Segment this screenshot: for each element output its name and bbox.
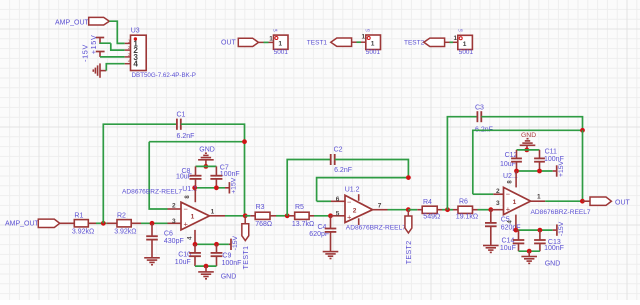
svg-text:C9: C9 xyxy=(222,253,231,260)
ground (left of U3) xyxy=(99,63,101,77)
wire xyxy=(582,200,590,202)
svg-text:−: − xyxy=(506,190,511,199)
wire xyxy=(88,222,96,224)
port TEST1 (down) xyxy=(244,216,246,224)
wire xyxy=(491,209,504,211)
wire xyxy=(545,200,582,202)
pin 1 output lead xyxy=(209,215,225,217)
wire xyxy=(106,64,124,71)
pin 4 lead xyxy=(515,215,517,231)
wire xyxy=(196,165,217,167)
svg-text:TEST1: TEST1 xyxy=(307,39,328,46)
svg-text:OUT: OUT xyxy=(615,200,631,207)
svg-text:AMP_OUT: AMP_OUT xyxy=(55,20,90,27)
wire xyxy=(519,250,540,252)
node xyxy=(193,242,198,247)
capacitor C2 feedback loop xyxy=(287,160,331,216)
wire xyxy=(450,41,454,43)
power -15V (U1 supply) xyxy=(229,243,231,245)
wire xyxy=(270,215,276,217)
wire xyxy=(149,142,167,209)
pin 4 stub xyxy=(358,218,360,225)
svg-text:1: 1 xyxy=(513,199,517,206)
pin 4 lead xyxy=(194,230,196,244)
wire xyxy=(331,215,346,217)
wire -15V rail (U2) xyxy=(516,229,553,231)
ground (C5) xyxy=(483,245,499,247)
svg-text:−: − xyxy=(184,204,189,213)
wire xyxy=(473,209,478,211)
svg-text:-15V: -15V xyxy=(80,44,89,62)
svg-text:1: 1 xyxy=(278,40,282,47)
svg-text:R3: R3 xyxy=(256,204,265,211)
node (C3 loop) xyxy=(445,207,450,212)
svg-text:1: 1 xyxy=(269,36,273,43)
node (C2 loop) xyxy=(285,213,290,218)
svg-text:U4: U4 xyxy=(273,29,277,33)
node xyxy=(527,249,532,254)
node xyxy=(214,185,219,190)
wire pin2 loop xyxy=(473,130,583,194)
svg-text:100nF: 100nF xyxy=(220,171,240,178)
node pin3 xyxy=(150,221,155,226)
wire xyxy=(357,41,362,43)
svg-text:19.1kΩ: 19.1kΩ xyxy=(456,214,478,221)
svg-text:TEST2: TEST2 xyxy=(404,39,425,46)
wire xyxy=(473,193,494,195)
svg-text:1: 1 xyxy=(371,41,375,48)
svg-text:AD8676BRZ-REEL7: AD8676BRZ-REEL7 xyxy=(531,209,591,216)
svg-text:GND: GND xyxy=(521,132,536,139)
wire xyxy=(60,222,75,224)
svg-text:100nF: 100nF xyxy=(544,245,564,252)
node output U1 xyxy=(243,213,248,218)
node xyxy=(537,169,542,174)
svg-text:5001: 5001 xyxy=(274,49,289,56)
svg-text:7: 7 xyxy=(378,203,382,210)
wire pin6 loop xyxy=(317,178,409,202)
svg-text:AD8676BRZ-REEL7: AD8676BRZ-REEL7 xyxy=(122,188,182,195)
wire xyxy=(107,222,117,224)
svg-text:C14: C14 xyxy=(502,238,515,245)
svg-text:2: 2 xyxy=(353,207,357,214)
svg-text:GND: GND xyxy=(545,260,561,267)
power +15V (U1 supply) xyxy=(225,187,229,189)
wire xyxy=(408,209,417,211)
wire pin2 loop xyxy=(149,141,244,143)
node output U1.2 xyxy=(406,207,411,212)
wire xyxy=(388,209,409,211)
svg-text:C6: C6 xyxy=(164,230,173,237)
node xyxy=(514,169,519,174)
svg-text:6: 6 xyxy=(336,196,340,203)
svg-text:5001: 5001 xyxy=(459,49,474,56)
svg-text:DBT50G-7.62-4P-BK-P: DBT50G-7.62-4P-BK-P xyxy=(132,72,196,79)
svg-text:GND: GND xyxy=(221,273,237,280)
svg-text:5001: 5001 xyxy=(366,49,381,56)
svg-text:1: 1 xyxy=(362,34,366,41)
node pin5 xyxy=(328,213,333,218)
svg-text:R6: R6 xyxy=(459,199,468,206)
svg-text:3: 3 xyxy=(496,200,500,207)
port OUT (output) xyxy=(590,197,611,205)
node xyxy=(214,242,219,247)
svg-text:+: + xyxy=(347,212,352,221)
wire xyxy=(245,215,250,217)
ground (C9/C10) xyxy=(205,266,207,272)
svg-text:C2: C2 xyxy=(334,147,343,154)
svg-text:R2: R2 xyxy=(117,213,126,220)
svg-text:1: 1 xyxy=(463,41,467,48)
wire xyxy=(225,215,245,217)
svg-text:-15V: -15V xyxy=(558,221,565,236)
svg-text:100nF: 100nF xyxy=(222,260,242,267)
power +15V xyxy=(96,37,104,39)
node R1-R2 xyxy=(101,221,106,226)
wire xyxy=(100,56,125,58)
svg-text:4: 4 xyxy=(133,60,138,69)
svg-text:6.2nF: 6.2nF xyxy=(334,167,352,174)
ground (C13/C14) xyxy=(528,251,530,256)
power -15V (U2 supply) xyxy=(553,229,557,231)
svg-text:AD8676BRZ-REEL7: AD8676BRZ-REEL7 xyxy=(346,224,406,231)
svg-text:+15V: +15V xyxy=(231,177,238,194)
port TEST2 (down) xyxy=(407,210,409,216)
svg-text:C3: C3 xyxy=(475,104,484,111)
svg-text:U3: U3 xyxy=(131,28,140,35)
svg-text:430pF: 430pF xyxy=(164,238,184,245)
svg-text:1: 1 xyxy=(537,194,541,201)
svg-text:10uF: 10uF xyxy=(500,245,516,252)
wire xyxy=(131,222,141,224)
svg-text:U5: U5 xyxy=(366,29,370,33)
pin 1 output lead xyxy=(531,200,546,202)
node xyxy=(580,128,585,133)
svg-text:5: 5 xyxy=(336,211,340,218)
node gnd xyxy=(524,148,529,153)
wire xyxy=(517,149,540,151)
ground (C4) xyxy=(323,251,339,253)
svg-text:3.92kΩ: 3.92kΩ xyxy=(114,229,136,236)
svg-text:1: 1 xyxy=(191,213,195,220)
wire xyxy=(582,130,584,201)
svg-text:6.2nF: 6.2nF xyxy=(177,133,195,140)
node pin3 U2 xyxy=(488,207,493,212)
wire xyxy=(109,21,124,43)
pin 8 stub xyxy=(358,194,360,201)
node gnd xyxy=(204,164,209,169)
power +15V (U2 supply) xyxy=(553,170,557,172)
svg-text:1: 1 xyxy=(454,35,458,42)
wire xyxy=(317,200,331,202)
wire -15V rail xyxy=(195,243,229,245)
svg-text:U6: U6 xyxy=(458,29,462,33)
svg-text:3: 3 xyxy=(172,218,176,225)
wire xyxy=(309,215,314,217)
svg-text:TEST1: TEST1 xyxy=(243,246,250,270)
wire xyxy=(168,222,182,224)
svg-text:C1: C1 xyxy=(177,111,186,118)
svg-text:13.7kΩ: 13.7kΩ xyxy=(292,221,314,228)
wire +15V rail xyxy=(195,187,225,189)
pin 8 lead xyxy=(515,171,517,187)
node xyxy=(204,264,209,269)
svg-text:2: 2 xyxy=(172,203,176,210)
wire xyxy=(290,215,295,217)
svg-text:+: + xyxy=(506,204,511,213)
node xyxy=(242,139,247,144)
wire +15V rail (U2) xyxy=(517,170,553,172)
capacitor C1 feedback loop xyxy=(103,124,177,223)
svg-text:R5: R5 xyxy=(295,204,304,211)
svg-text:1: 1 xyxy=(211,209,215,216)
node xyxy=(514,228,519,233)
node xyxy=(406,175,411,180)
svg-text:R4: R4 xyxy=(423,199,432,206)
svg-text:768Ω: 768Ω xyxy=(255,221,272,228)
svg-text:−: − xyxy=(347,198,352,207)
svg-text:549Ω: 549Ω xyxy=(423,214,440,221)
svg-text:AMP_OUT: AMP_OUT xyxy=(5,221,40,228)
node xyxy=(192,185,197,190)
node output U2 xyxy=(580,199,585,204)
svg-text:10uF: 10uF xyxy=(175,259,191,266)
power -15V xyxy=(96,51,105,53)
pin 8 lead xyxy=(194,188,196,202)
svg-text:-15V: -15V xyxy=(232,235,239,250)
svg-text:OUT: OUT xyxy=(221,40,237,47)
svg-text:+15V: +15V xyxy=(558,160,565,177)
wire xyxy=(264,41,269,43)
wire xyxy=(437,209,442,211)
wire xyxy=(100,42,111,44)
ground (C6) xyxy=(144,257,160,259)
svg-text:2: 2 xyxy=(496,188,500,195)
svg-text:U1.2: U1.2 xyxy=(345,187,360,194)
wire xyxy=(450,209,453,211)
svg-text:GND: GND xyxy=(199,147,215,154)
svg-text:R1: R1 xyxy=(74,213,83,220)
pin 7 output lead xyxy=(373,209,388,211)
capacitor C3 feedback loop xyxy=(447,117,477,210)
svg-text:TEST2: TEST2 xyxy=(406,241,413,265)
wire xyxy=(195,265,217,267)
node xyxy=(538,228,543,233)
svg-text:3.92kΩ: 3.92kΩ xyxy=(72,229,94,236)
svg-text:+: + xyxy=(184,219,189,228)
svg-text:C11: C11 xyxy=(545,148,557,155)
